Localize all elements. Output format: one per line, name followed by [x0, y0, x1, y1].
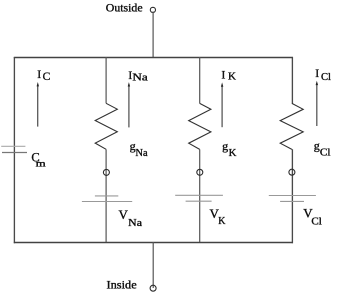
capacitor C_m: [1, 145, 25, 147]
svg-text:I: I: [222, 69, 226, 81]
wire right rail upper (Cl branch): [291, 57, 293, 104]
svg-text:V: V: [119, 207, 129, 222]
battery V_K: [175, 194, 223, 196]
terminal Na: [103, 169, 109, 175]
svg-text:g: g: [222, 139, 228, 153]
svg-text:Cl: Cl: [320, 148, 331, 159]
wire bottom rail: [14, 242, 293, 244]
resistor g_K: [189, 103, 211, 149]
resistor g_Na: [95, 103, 117, 149]
svg-text:g: g: [314, 138, 320, 152]
battery V_Cl: [269, 195, 316, 197]
wire outside terminal to top rail: [152, 12, 154, 58]
svg-text:I: I: [315, 68, 319, 80]
svg-text:Na: Na: [132, 72, 148, 83]
svg-text:Cl: Cl: [311, 216, 321, 227]
wire left rail (capacitor branch): [13, 57, 15, 243]
terminal Cl: [289, 169, 295, 175]
arrow I_Na: [128, 85, 130, 128]
svg-text:K: K: [218, 216, 226, 227]
wire Na branch top: [105, 57, 107, 103]
svg-text:Na: Na: [135, 148, 148, 159]
wire K resistor to bottom rail: [199, 149, 201, 242]
arrow I_C: [37, 84, 39, 126]
wire inside terminal: [152, 242, 154, 288]
svg-text:Na: Na: [128, 218, 142, 229]
svg-text:Inside: Inside: [107, 280, 137, 292]
terminal K: [197, 169, 203, 175]
wire right rail lower (Cl branch): [291, 149, 293, 243]
svg-text:K: K: [229, 148, 237, 159]
arrow I_K: [221, 85, 223, 127]
svg-text:m: m: [36, 160, 47, 170]
wire Na resistor to bottom rail: [105, 149, 107, 242]
svg-text:Cl: Cl: [321, 72, 331, 83]
resistor g_Cl: [280, 103, 303, 149]
wire top rail: [14, 57, 293, 59]
terminal inside: [150, 285, 156, 291]
svg-text:K: K: [228, 72, 236, 83]
battery V_Na: [95, 195, 118, 197]
wire K branch top: [199, 57, 201, 103]
terminal outside: [150, 7, 155, 12]
svg-text:Outside: Outside: [106, 2, 143, 14]
arrow I_Cl: [316, 83, 318, 126]
